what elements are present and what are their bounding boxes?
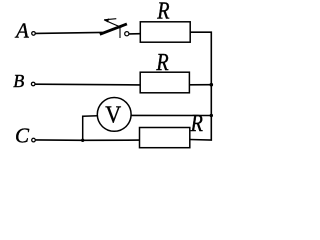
svg-text:A: A xyxy=(14,19,29,43)
svg-text:B: B xyxy=(13,71,24,91)
svg-text:R: R xyxy=(190,109,204,136)
svg-text:C: C xyxy=(15,123,30,147)
svg-text:V: V xyxy=(105,101,121,128)
svg-text:R: R xyxy=(155,48,169,75)
svg-text:R: R xyxy=(156,0,170,24)
